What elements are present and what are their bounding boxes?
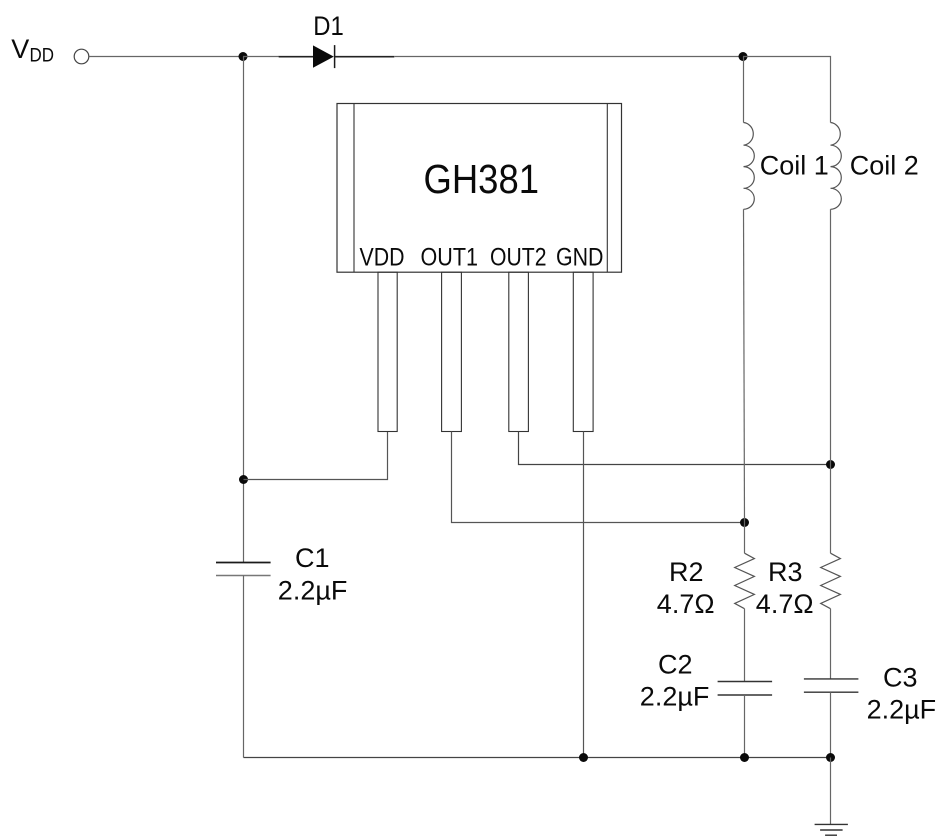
capacitor C3	[804, 679, 859, 692]
wire R2 bottom to C2	[744, 609, 746, 681]
svg-text:2.2µF: 2.2µF	[867, 694, 936, 724]
svg-text:4.7Ω: 4.7Ω	[657, 589, 715, 619]
svg-text:C2: C2	[658, 650, 693, 680]
node junction dot OUT1/R2	[740, 518, 749, 527]
pin 1 VDD leg	[378, 272, 397, 431]
wire C1 bottom to bottom rail	[243, 576, 245, 758]
svg-text:VDD: VDD	[360, 243, 405, 271]
inductor Coil 2	[831, 123, 842, 465]
resistor R3	[821, 553, 841, 609]
pin 3 OUT2 leg	[509, 272, 529, 431]
wire diode cathode to right junction	[335, 56, 395, 58]
node junction dot C3/bottom	[826, 753, 835, 762]
svg-text:4.7Ω: 4.7Ω	[756, 589, 814, 619]
node VDD label	[11, 34, 54, 66]
svg-text:2.2µF: 2.2µF	[640, 681, 710, 711]
node junction dot C2/bottom	[740, 753, 749, 762]
node junction dot top-left	[239, 52, 248, 61]
node junction dot top-right	[739, 52, 748, 61]
wire pin VDD to left rail	[244, 432, 388, 480]
resistor R2	[735, 553, 755, 609]
svg-text:R2: R2	[669, 557, 704, 587]
ground	[815, 824, 848, 835]
wire bottom rail	[244, 757, 831, 759]
node junction dot GND/bottom	[579, 753, 588, 762]
capacitor C2	[718, 682, 773, 696]
svg-text:GH381: GH381	[424, 156, 540, 202]
svg-text:V: V	[11, 34, 29, 64]
pin 4 GND leg	[573, 272, 593, 431]
wire top-right corner to coil2	[743, 57, 831, 123]
wire C2 bottom to bottom rail	[744, 695, 746, 758]
wire terminal to junction	[89, 56, 243, 58]
node junction dot left rail	[239, 475, 248, 484]
wire left vertical (VDD rail down to C1)	[243, 57, 245, 563]
terminal VDD (open circle)	[74, 49, 89, 64]
node junction dot OUT2/R3	[826, 460, 835, 469]
wire pin OUT1 to R2 top	[452, 432, 745, 523]
op-amp U1 GH381 package body	[337, 104, 622, 273]
wire ground stem	[830, 758, 832, 825]
svg-text:D1: D1	[313, 11, 344, 41]
svg-text:C1: C1	[295, 543, 330, 573]
pin 2 OUT1 leg	[442, 272, 462, 431]
wire R3 bottom to C3	[830, 609, 832, 679]
svg-text:Coil 2: Coil 2	[850, 150, 919, 180]
capacitor C1	[216, 563, 271, 576]
svg-text:OUT1: OUT1	[421, 243, 479, 271]
wire R2 top lead	[744, 523, 746, 554]
wire junction to diode anode	[243, 56, 279, 58]
wire pin GND to bottom rail	[583, 432, 585, 758]
svg-text:DD: DD	[30, 45, 55, 66]
wire R3 top lead	[830, 465, 832, 554]
wire C3 bottom to bottom rail	[830, 692, 832, 757]
wire pin OUT2 to R3 top	[519, 432, 831, 465]
svg-text:C3: C3	[883, 662, 918, 692]
svg-text:GND: GND	[556, 243, 604, 271]
svg-text:2.2µF: 2.2µF	[278, 576, 348, 606]
svg-text:R3: R3	[768, 557, 803, 587]
svg-text:Coil 1: Coil 1	[760, 150, 829, 180]
inductor Coil 1	[744, 57, 755, 523]
svg-text:OUT2: OUT2	[490, 243, 547, 271]
diode D1	[313, 45, 335, 68]
